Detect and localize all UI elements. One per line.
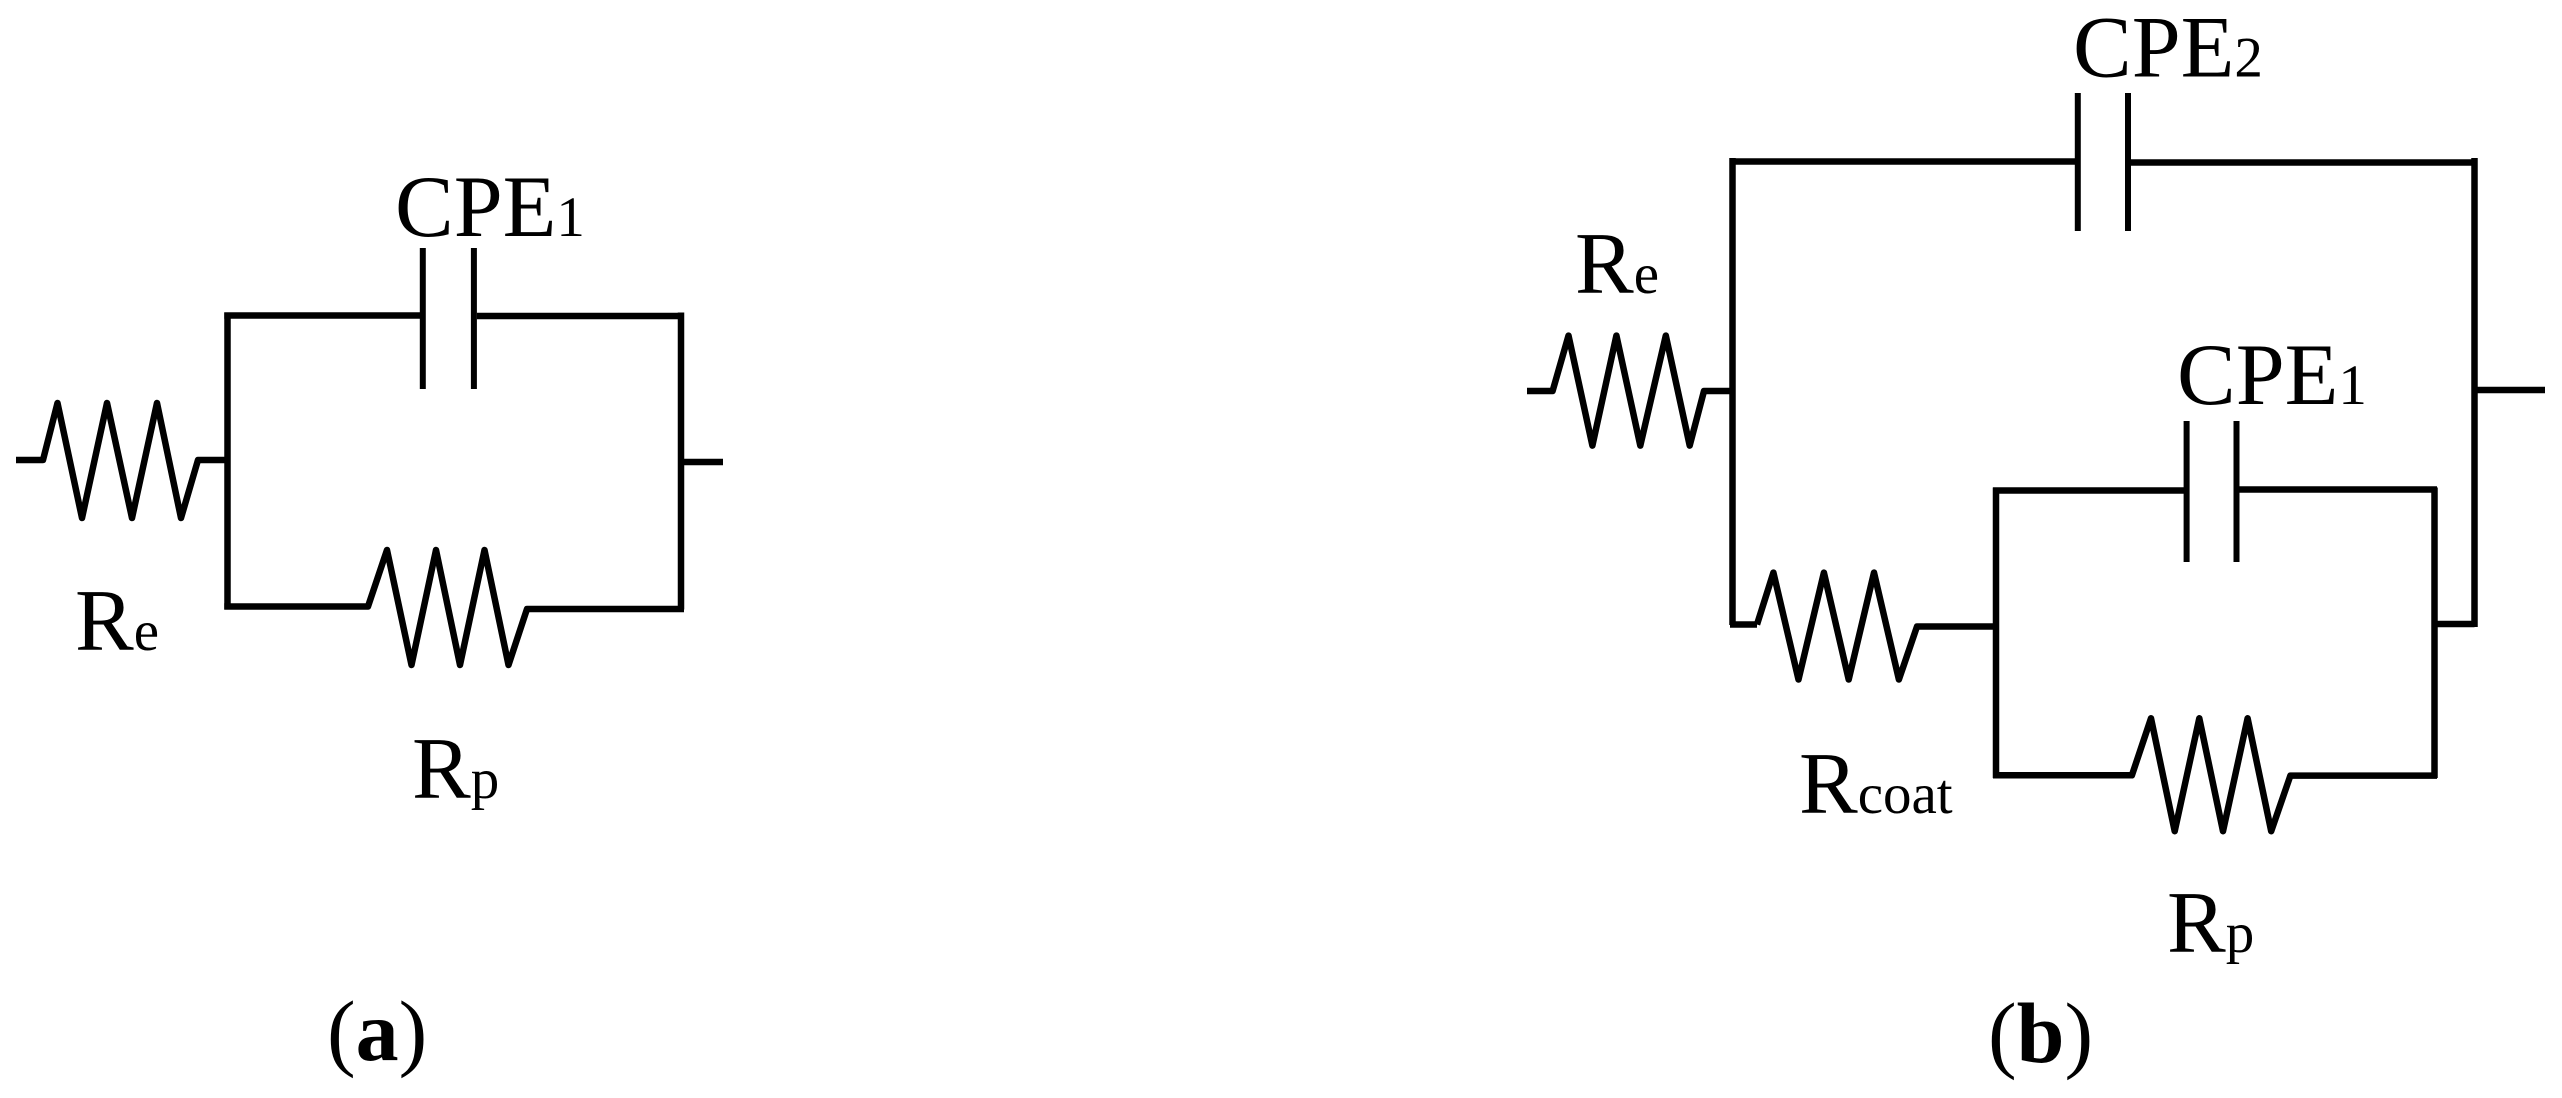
capacitor CPE1 (circuit a) right plate (471, 248, 477, 389)
capacitor CPE2 (circuit b) right plate (2125, 93, 2131, 231)
capacitor CPE1 (circuit b) right plate (2234, 421, 2240, 562)
svg-text:(b): (b) (1988, 985, 2093, 1081)
capacitor CPE1 (circuit a) left plate (420, 248, 426, 389)
resistor Rp (circuit a) on bottom rail (224, 550, 684, 665)
wire: output stub (b) (2475, 387, 2546, 394)
wire: top rail left segment (a) (224, 312, 420, 319)
svg-text:(a): (a) (327, 983, 427, 1079)
svg-text:Rp: Rp (2167, 875, 2254, 972)
wire: foot at bottom of outer-left vertical (b) (1730, 621, 1757, 628)
resistor Re (circuit a) with input lead wire (16, 403, 227, 518)
wire: right vertical of parallel box (a) (678, 313, 685, 610)
svg-text:CPE2: CPE2 (2073, 0, 2263, 97)
resistor Rcoat (circuit b) (1757, 573, 1996, 680)
svg-text:CPE1: CPE1 (2177, 327, 2367, 424)
svg-text:Re: Re (1575, 216, 1659, 313)
wire: left vertical of parallel box (a) (224, 313, 231, 610)
svg-text:Rp: Rp (412, 721, 499, 818)
svg-text:Re: Re (75, 573, 159, 670)
wire: right vertical of inner box (b) (2431, 488, 2438, 779)
capacitor CPE2 (circuit b) left plate (2075, 93, 2081, 231)
wire: inner top rail right segment (b) (2240, 486, 2438, 493)
capacitor CPE1 (circuit b) left plate (2184, 421, 2190, 562)
svg-text:CPE1: CPE1 (395, 159, 585, 256)
wire: top rail right segment (b) (2131, 159, 2477, 166)
wire: top rail left segment (b) (1730, 158, 2076, 165)
resistor Rp (circuit b) on inner bottom rail (1993, 718, 2437, 831)
wire: inner top rail left segment (b) (1993, 487, 2184, 494)
wire: left vertical of inner box (b) (1993, 488, 2000, 779)
wire: right vertical of outer box (b) (2471, 158, 2478, 627)
wire: output stub (a) (681, 459, 723, 466)
resistor Re (circuit b) with input lead wire (1527, 336, 1730, 446)
wire: left vertical of outer box (b) (1729, 158, 1736, 625)
wire: jog connecting inner and outer right verticals (b) (2435, 621, 2475, 628)
svg-text:Rcoat: Rcoat (1799, 736, 1953, 833)
wire: top rail right segment (a) (477, 313, 684, 320)
